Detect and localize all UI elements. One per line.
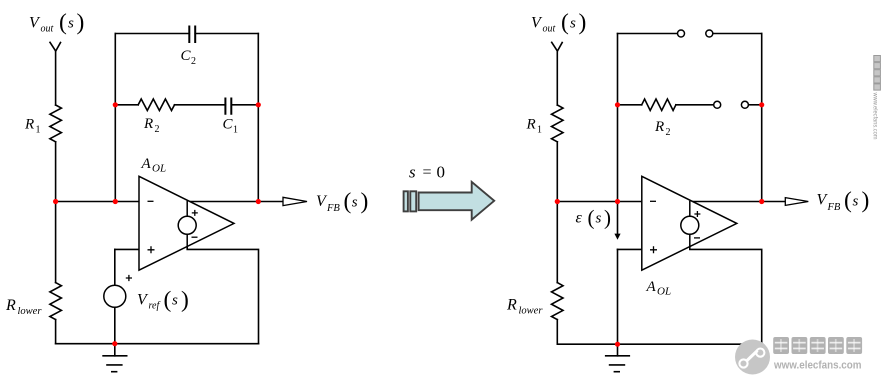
svg-text:2: 2 [155, 124, 160, 135]
svg-text:(: ( [588, 206, 595, 230]
svg-text:s: s [68, 16, 74, 32]
svg-text:1: 1 [233, 125, 238, 136]
svg-text:): ) [604, 206, 611, 230]
svg-text:(: ( [844, 188, 852, 214]
svg-text:2: 2 [191, 56, 196, 67]
svg-text:): ) [862, 188, 870, 214]
svg-text:(: ( [344, 189, 352, 215]
svg-text:(: ( [164, 287, 172, 313]
svg-text:lower: lower [18, 306, 43, 317]
svg-text:OL: OL [152, 163, 166, 175]
svg-text:R: R [143, 116, 153, 132]
svg-text:R: R [526, 117, 536, 133]
svg-text:ε: ε [576, 210, 583, 227]
svg-text:A: A [141, 156, 152, 172]
svg-text:C: C [181, 48, 192, 64]
svg-text:R: R [5, 297, 16, 314]
svg-text:s: s [352, 195, 358, 211]
svg-text:C: C [223, 117, 234, 133]
svg-text:s: s [596, 211, 602, 227]
svg-text:): ) [361, 189, 369, 215]
svg-text:OL: OL [657, 286, 671, 298]
svg-text:out: out [41, 24, 54, 35]
svg-text:R: R [506, 297, 517, 314]
svg-text:out: out [543, 24, 556, 35]
svg-text:0: 0 [437, 163, 446, 182]
svg-text:): ) [181, 287, 189, 313]
svg-text:s: s [172, 293, 178, 309]
svg-text:R: R [654, 119, 664, 135]
svg-text:): ) [579, 10, 587, 36]
svg-text:ref: ref [149, 301, 161, 312]
svg-text:(: ( [561, 10, 569, 36]
svg-text:A: A [646, 279, 657, 295]
svg-text:1: 1 [537, 125, 542, 136]
svg-text:FB: FB [827, 202, 841, 213]
svg-text:(: ( [59, 10, 67, 36]
svg-text:s: s [570, 16, 576, 32]
svg-text:=: = [423, 164, 432, 181]
svg-text:www.elecfans.com: www.elecfans.com [773, 359, 862, 371]
svg-text:R: R [24, 117, 34, 133]
svg-text:): ) [77, 10, 85, 36]
svg-text:lower: lower [519, 306, 544, 317]
svg-text:2: 2 [666, 127, 671, 138]
svg-text:s: s [409, 163, 416, 182]
svg-text:FB: FB [326, 203, 340, 214]
svg-text:s: s [853, 194, 859, 210]
svg-text:www.elecfans.com: www.elecfans.com [872, 92, 879, 140]
svg-text:1: 1 [36, 125, 41, 136]
